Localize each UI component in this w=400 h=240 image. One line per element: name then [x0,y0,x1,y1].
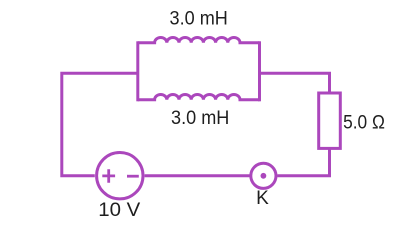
node left junction bar [136,41,139,101]
svg-text:3.0 mH: 3.0 mH [170,7,228,29]
inductor L2 3.0 mH (bottom) [138,95,260,100]
wire switch to battery [145,174,250,177]
svg-text:10 V: 10 V [98,200,140,221]
svg-text:K: K [256,188,269,209]
svg-text:3.0 mH: 3.0 mH [171,107,229,129]
resistor R1 body [319,93,341,148]
wire left loop (top-left horizontal, left vertical, bottom-left horizontal) [62,73,138,175]
wire top-right to resistor [260,73,330,91]
node right junction bar [258,41,261,101]
battery V1 circle [97,153,143,199]
switch K center dot [261,173,267,179]
wire resistor bottom to switch [277,148,329,175]
inductor L1 3.0 mH (top) [138,37,260,42]
battery plus sign [102,169,115,182]
battery minus sign [127,175,139,178]
switch K circle [251,163,276,188]
svg-text:5.0 Ω: 5.0 Ω [343,111,385,133]
